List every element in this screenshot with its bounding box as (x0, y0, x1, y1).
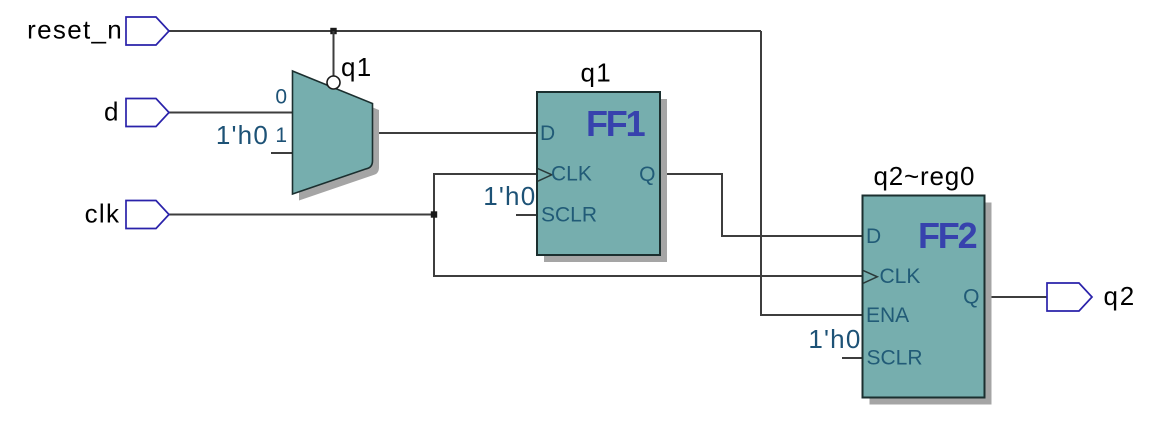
input pin clk (126, 201, 169, 229)
FF2 shadow (870, 203, 992, 405)
svg-text:1'h0: 1'h0 (216, 120, 269, 150)
svg-text:Q: Q (963, 286, 979, 309)
wire clk branch to FF1 CLK (434, 174, 537, 214)
svg-text:D: D (540, 122, 555, 145)
svg-text:CLK: CLK (880, 265, 921, 288)
svg-text:D: D (866, 225, 881, 248)
mux select inverter bubble (327, 76, 340, 89)
wire FF1 SCLR stub (516, 214, 537, 216)
svg-text:q2: q2 (1104, 281, 1137, 311)
svg-text:1'h0: 1'h0 (808, 324, 861, 354)
wire FF1 Q to FF2 D (660, 174, 863, 236)
FF2 body (863, 196, 985, 398)
wire d to mux (169, 112, 293, 114)
svg-text:Q: Q (639, 163, 655, 186)
svg-text:q1: q1 (581, 58, 613, 88)
output pin q2 (1047, 283, 1092, 311)
svg-text:CLK: CLK (551, 163, 592, 186)
svg-text:FF2: FF2 (918, 215, 977, 256)
svg-text:SCLR: SCLR (867, 347, 923, 370)
svg-text:q2~reg0: q2~reg0 (874, 161, 976, 191)
junction on reset_n net (330, 28, 336, 34)
svg-text:1'h0: 1'h0 (483, 181, 536, 211)
svg-text:ENA: ENA (866, 304, 909, 327)
svg-text:SCLR: SCLR (541, 204, 597, 227)
svg-text:reset_n: reset_n (27, 15, 123, 45)
mux q1 body (293, 71, 373, 194)
junction on clk net (431, 211, 437, 217)
input pin reset_n (126, 17, 169, 45)
wire mux select vertical (333, 31, 335, 76)
svg-text:q1: q1 (341, 52, 373, 82)
svg-text:1: 1 (275, 124, 287, 147)
wire FF2 SCLR stub (842, 357, 863, 359)
wire clk horizontal (169, 214, 434, 216)
FF1 shadow (544, 99, 667, 262)
wire mux input 1 stub (271, 152, 293, 154)
wire mux output to FF1 D (372, 132, 537, 134)
svg-text:d: d (104, 97, 120, 127)
FF2 clock arrow (863, 271, 877, 284)
svg-text:clk: clk (85, 199, 121, 229)
wire clk branch to FF2 CLK (434, 214, 863, 276)
FF1 clock arrow (538, 169, 552, 182)
input pin d (126, 99, 169, 127)
wire reset_n horizontal (169, 30, 761, 32)
wire reset_n vertical to ENA (761, 31, 863, 315)
svg-text:FF1: FF1 (586, 103, 646, 144)
svg-text:0: 0 (275, 85, 287, 108)
wire FF2 Q to q2 pin (985, 296, 1048, 298)
mux q1 shadow (299, 78, 379, 201)
FF1 body (537, 92, 660, 255)
